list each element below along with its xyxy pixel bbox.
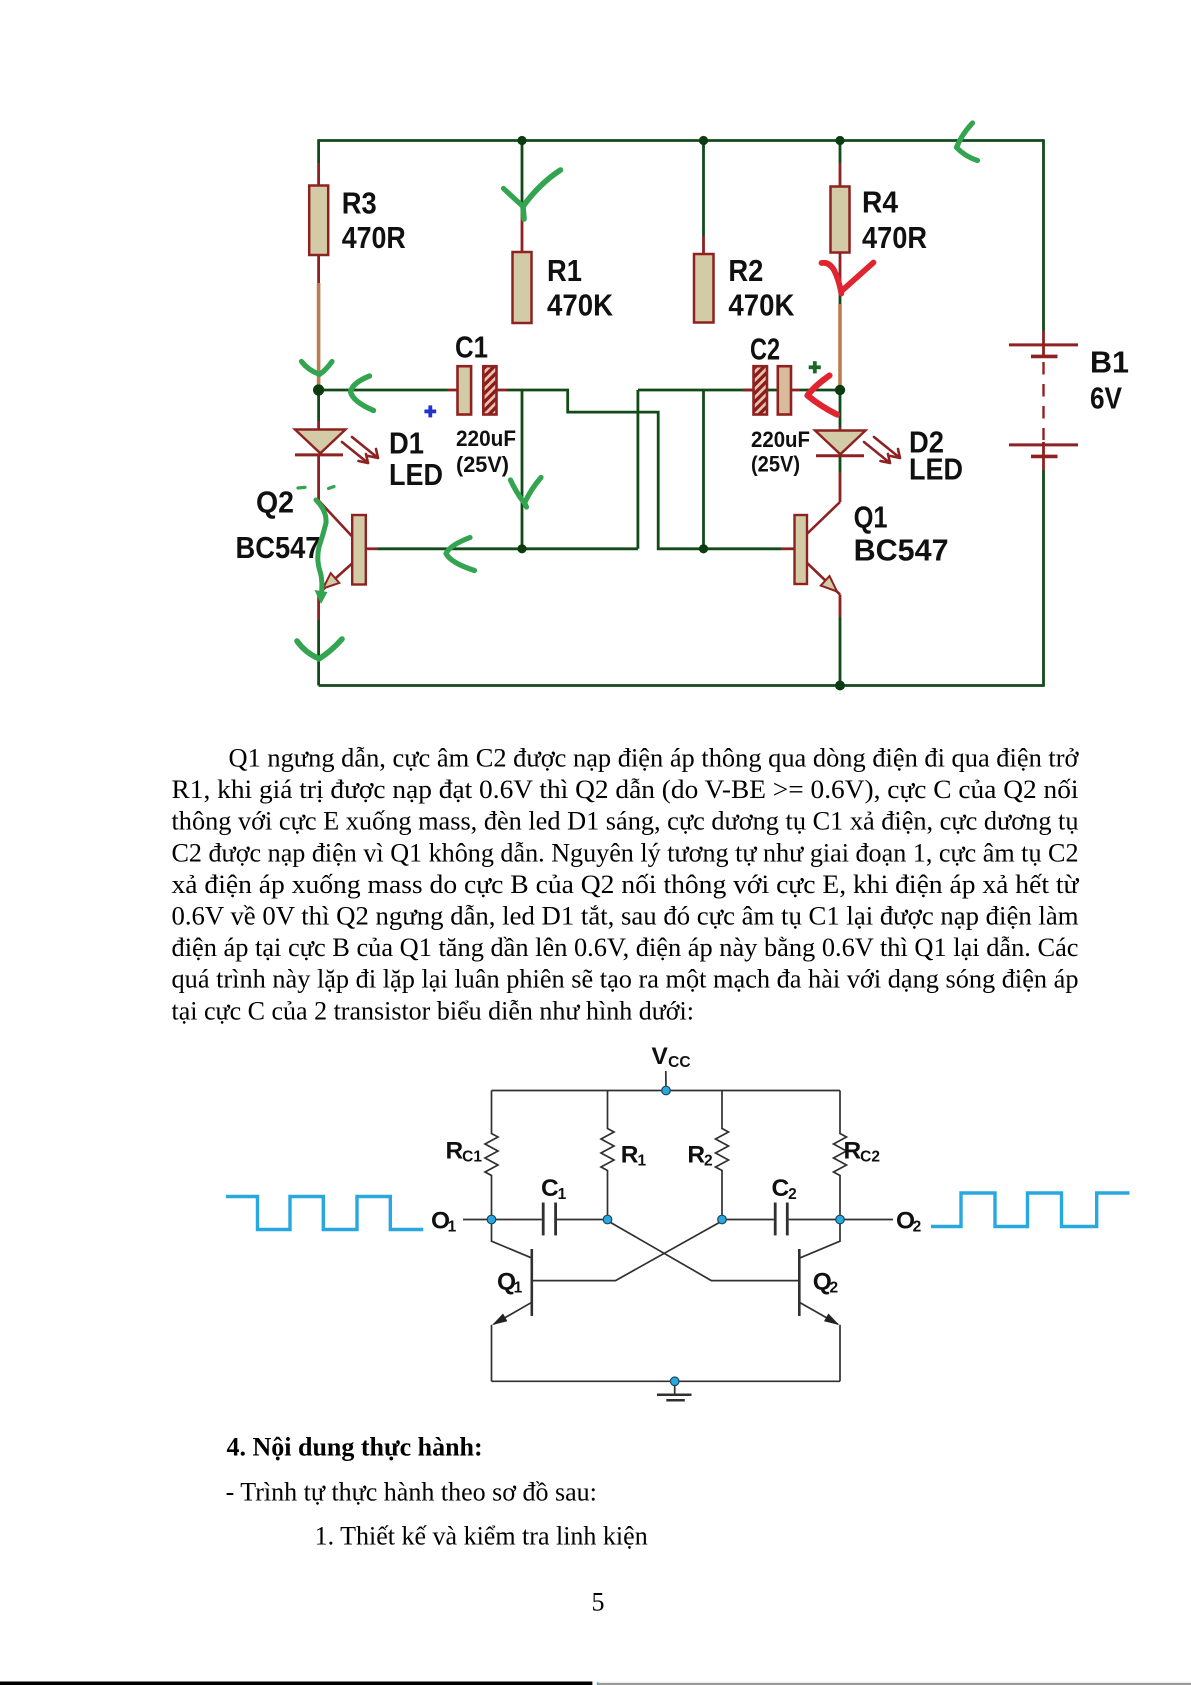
svg-text:R: R	[687, 1142, 705, 1169]
svg-text:Q1: Q1	[854, 500, 888, 535]
svg-text:470K: 470K	[728, 288, 795, 323]
svg-text:LED: LED	[909, 452, 963, 487]
svg-text:BC547: BC547	[236, 530, 321, 565]
svg-text:C2: C2	[860, 1149, 880, 1166]
svg-text:1. Thiết kế và kiểm tra linh k: 1. Thiết kế và kiểm tra linh kiện	[315, 1521, 648, 1550]
svg-text:470K: 470K	[547, 288, 614, 323]
svg-text:(25V): (25V)	[751, 452, 800, 477]
svg-text:4. Nội dung thực hành:: 4. Nội dung thực hành:	[227, 1432, 483, 1461]
svg-text:220uF: 220uF	[456, 426, 516, 451]
svg-text:5: 5	[592, 1588, 605, 1617]
svg-text:LED: LED	[389, 457, 443, 492]
svg-text:D1: D1	[389, 426, 424, 461]
svg-text:- Trình tự thực hành theo sơ đ: - Trình tự thực hành theo sơ đồ sau:	[226, 1478, 597, 1507]
svg-text:V: V	[652, 1043, 669, 1070]
svg-text:R: R	[446, 1138, 464, 1165]
svg-text:C1: C1	[455, 330, 488, 365]
svg-text:C: C	[541, 1175, 559, 1202]
svg-text:điện áp tại cực B của Q1 tăng: điện áp tại cực B của Q1 tăng dần lên 0.…	[172, 933, 1079, 962]
svg-text:R1: R1	[547, 253, 582, 288]
svg-text:Q1 ngưng dẫn, cực âm C2 được n: Q1 ngưng dẫn, cực âm C2 được nạp điện áp…	[229, 744, 1080, 773]
svg-text:6V: 6V	[1090, 381, 1122, 416]
svg-text:R4: R4	[862, 185, 899, 220]
svg-text:C2 được nạp điện vì Q1 không d: C2 được nạp điện vì Q1 không dẫn. Nguyên…	[172, 838, 1079, 867]
svg-text:220uF: 220uF	[751, 427, 810, 452]
svg-text:R2: R2	[728, 253, 763, 288]
svg-text:1: 1	[558, 1186, 567, 1203]
svg-text:(25V): (25V)	[456, 452, 509, 477]
svg-text:CC: CC	[668, 1054, 690, 1071]
svg-text:1: 1	[637, 1153, 646, 1170]
svg-text:Q2: Q2	[256, 485, 294, 520]
svg-text:tại cực C của 2 transistor biể: tại cực C của 2 transistor biểu diễn như…	[172, 996, 694, 1025]
svg-text:2: 2	[829, 1280, 838, 1297]
svg-text:2: 2	[704, 1153, 713, 1170]
svg-text:C2: C2	[750, 332, 780, 367]
svg-text:0.6V về 0V thì Q2 ngưng dẫn, l: 0.6V về 0V thì Q2 ngưng dẫn, led D1 tắt,…	[172, 902, 1079, 931]
svg-text:470R: 470R	[862, 220, 927, 255]
svg-text:quá trình này lặp đi lặp lại l: quá trình này lặp đi lặp lại luân phiên …	[172, 965, 1079, 994]
svg-text:BC547: BC547	[854, 533, 949, 568]
svg-text:470R: 470R	[342, 220, 406, 255]
svg-text:R: R	[621, 1142, 639, 1169]
svg-text:C1: C1	[462, 1149, 482, 1166]
svg-text:1: 1	[514, 1280, 523, 1297]
svg-text:xả điện áp xuống mass do cực B: xả điện áp xuống mass do cực B của Q2 nố…	[172, 870, 1080, 899]
svg-text:2: 2	[913, 1218, 922, 1235]
svg-text:1: 1	[448, 1218, 457, 1235]
svg-text:R: R	[844, 1138, 862, 1165]
svg-text:thông với cực E xuống mass, đè: thông với cực E xuống mass, đèn led D1 s…	[172, 807, 1079, 836]
svg-text:2: 2	[788, 1186, 797, 1203]
svg-text:R1, khi giá trị được nạp đạt 0: R1, khi giá trị được nạp đạt 0.6V thì Q2…	[172, 775, 1079, 804]
svg-text:B1: B1	[1090, 345, 1129, 380]
svg-text:R3: R3	[342, 186, 377, 221]
svg-text:C: C	[772, 1175, 790, 1202]
